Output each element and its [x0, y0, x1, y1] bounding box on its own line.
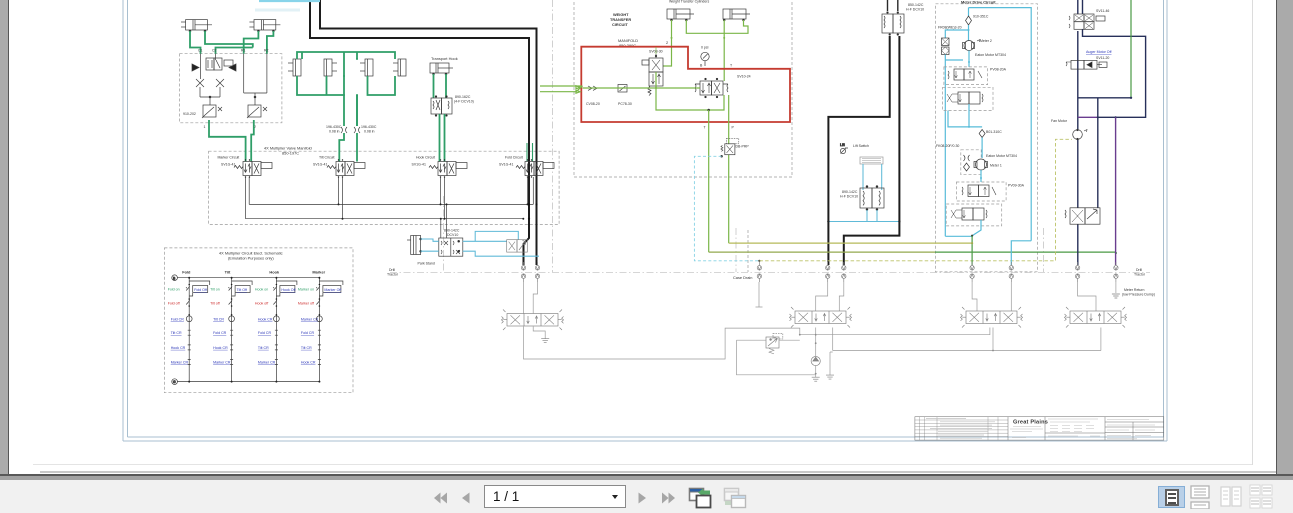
svg-text:Fold CR: Fold CR	[301, 331, 315, 335]
DCV 890-142C H-F	[860, 186, 884, 211]
svg-text:Drill: Drill	[1136, 268, 1142, 272]
svg-text:Fold Off: Fold Off	[194, 288, 207, 292]
address scribbles	[1010, 419, 1155, 439]
svg-text:890-162C: 890-162C	[455, 95, 471, 99]
svg-text:PV09-30A: PV09-30A	[1008, 184, 1025, 188]
svg-text:Park Stand: Park Stand	[418, 262, 435, 266]
bus1 to SCV3	[816, 328, 990, 335]
green wires hook DCV to hook valve	[440, 114, 445, 162]
svg-text:T: T	[704, 126, 707, 130]
tank below pump	[815, 374, 817, 378]
ground node bottom	[172, 379, 178, 385]
cyan right loop to coupler	[1011, 241, 1031, 265]
green tilt drops to restrictors	[336, 76, 357, 126]
green wires WT cylinders	[663, 20, 748, 81]
4X multiplier valve manifold dashed box	[209, 151, 559, 224]
svg-text:910-351C: 910-351C	[973, 15, 989, 19]
svg-text:R2: R2	[264, 49, 269, 53]
svg-text:SV11-20: SV11-20	[1096, 56, 1109, 60]
revision table left	[915, 417, 1008, 440]
green P-line below red box	[728, 95, 730, 243]
svg-text:Fold CR: Fold CR	[213, 331, 227, 335]
svg-text:Marker off: Marker off	[298, 302, 314, 306]
svg-text:Weight Transfer Cylinders: Weight Transfer Cylinders	[669, 0, 709, 4]
svg-text:Transport Hook: Transport Hook	[431, 56, 458, 61]
quick coupler meter return	[1114, 262, 1118, 282]
wire black inner	[320, 0, 537, 265]
restrictor 196-430C left	[341, 127, 347, 133]
svg-text:Lift Switch: Lift Switch	[853, 144, 869, 148]
svg-text:(Emulation Purposes only): (Emulation Purposes only)	[228, 256, 274, 261]
svg-text:PV08-20A: PV08-20A	[990, 68, 1007, 72]
svg-text:Marker CR: Marker CR	[213, 361, 231, 365]
svg-text:Hook CR: Hook CR	[213, 346, 228, 350]
transport hook cylinder	[430, 63, 453, 75]
quick coupler case drain	[757, 262, 761, 282]
svg-text:Tractor: Tractor	[1134, 273, 1146, 277]
zone dash-dot line vertical left	[552, 0, 554, 272]
svg-text:Tilt CR: Tilt CR	[258, 346, 269, 350]
svg-text:0.08 in: 0.08 in	[364, 130, 375, 134]
svg-text:Hook Circuit: Hook Circuit	[416, 156, 435, 160]
pump feed line	[815, 328, 817, 374]
cyan motor to valve block	[968, 51, 970, 67]
910-202 internals: check valve right	[229, 54, 267, 88]
svg-text:Meter 2: Meter 2	[980, 39, 992, 43]
quick coupler fan A	[1075, 262, 1079, 282]
SCV4 tractor valve	[1065, 307, 1127, 328]
tilt cylinder 1	[288, 59, 301, 76]
fold cylinder 1	[181, 20, 212, 32]
PV09 second block	[946, 204, 1002, 226]
check diamond 910-351C	[966, 16, 972, 25]
svg-text:Marker Off: Marker Off	[324, 288, 341, 292]
svg-text:196-430C: 196-430C	[361, 125, 377, 129]
cyan wires lift switch to DCV	[863, 164, 882, 190]
svg-text:C1: C1	[198, 49, 203, 53]
svg-text:(4-F DCV10): (4-F DCV10)	[454, 100, 474, 104]
wire: valve right port down, west, down to coupler	[844, 36, 900, 265]
cyan dashed from DB-PRP	[694, 156, 759, 260]
svg-text:P: P	[732, 126, 735, 130]
cyan down from block2	[948, 104, 982, 127]
svg-text:Fold CR: Fold CR	[258, 331, 272, 335]
bus2 to SCV3/SCV4	[833, 328, 1101, 351]
910-202 internals: check valve left	[192, 54, 216, 75]
red manifold outline	[581, 47, 790, 122]
quick coupler fold A	[521, 262, 525, 282]
PV08-20A valve block	[944, 67, 988, 85]
svg-text:Tilt CR: Tilt CR	[301, 346, 312, 350]
svg-text:C2: C2	[212, 49, 217, 53]
CV08-20 symbol	[588, 86, 597, 90]
svg-text:Hook CR: Hook CR	[171, 346, 186, 350]
wire black right pair from DCV 850-142C	[887, 0, 889, 11]
SCV3 tractor valve	[961, 307, 1023, 328]
title block outer rect	[915, 417, 1164, 440]
tilt cylinder 2	[324, 59, 337, 76]
bottom bus	[177, 381, 319, 383]
green drop to coupler	[971, 236, 973, 265]
SCV1 tractor valve	[502, 310, 564, 331]
navy wire from top to SV11-46	[1082, 0, 1084, 14]
quick coupler fold B	[535, 262, 539, 282]
cyan through orifice to motor1	[981, 138, 983, 159]
svg-text:Eaton Motor MT304: Eaton Motor MT304	[975, 53, 1006, 57]
svg-text:G: G	[173, 380, 176, 384]
quick coupler lift A	[826, 262, 830, 282]
park stand cylinder	[407, 236, 422, 255]
svg-text:Tilt Off: Tilt Off	[237, 288, 247, 292]
second valve block	[943, 87, 993, 110]
cyan wires DCV to black lines	[828, 210, 899, 222]
svg-text:H-F DCV10: H-F DCV10	[840, 195, 858, 199]
green wires hook cylinder to DCV	[434, 74, 447, 98]
single page mode (active)	[1158, 486, 1185, 508]
valve 850-142C H-F DCV10 top right	[882, 12, 904, 36]
case drain stub	[756, 282, 763, 307]
prev page btn	[461, 492, 471, 504]
first page btn	[433, 492, 448, 504]
top bus	[177, 277, 319, 279]
power node top	[172, 275, 178, 281]
svg-text:B: B	[700, 64, 703, 68]
cyan stub top edge	[259, 0, 320, 2]
navy drop to lower valve	[1097, 98, 1099, 208]
910-202 manifold dashed box	[180, 54, 282, 123]
meter drive dashed box	[936, 4, 1038, 272]
motor Meter 2	[963, 40, 981, 51]
svg-text:SV1G-41: SV1G-41	[313, 163, 327, 167]
svg-text:Marker on: Marker on	[298, 288, 314, 292]
svg-text:850-142C: 850-142C	[908, 3, 924, 7]
svg-text:Marker CR: Marker CR	[301, 317, 319, 321]
svg-text:Hook off: Hook off	[255, 302, 268, 306]
WT cylinder 1	[667, 9, 694, 21]
svg-text:B01-310C: B01-310C	[986, 130, 1002, 134]
fan motor circle	[1073, 129, 1087, 140]
page edges	[33, 464, 1252, 465]
transport hook DCV 890-162C	[431, 96, 452, 117]
relief loop lines	[737, 340, 816, 375]
weight transfer dashed box	[574, 0, 792, 177]
quick coupler meter B	[1009, 262, 1013, 282]
cyan motor1 down	[980, 170, 982, 182]
svg-text:Tractor: Tractor	[387, 273, 399, 277]
svg-text:Hook Off: Hook Off	[281, 288, 295, 292]
cyan to filters	[945, 25, 968, 41]
long olive dashed case-drain line	[759, 139, 1072, 260]
svg-text:0 psi: 0 psi	[701, 46, 709, 50]
marker circuit valve SV1G-41	[234, 159, 272, 177]
svg-text:DCV10: DCV10	[447, 233, 458, 237]
quick coupler lift B	[842, 262, 846, 282]
green tilt bus bottom	[297, 76, 395, 126]
svg-text:Tilt: Tilt	[225, 270, 231, 275]
lift switch symbol	[840, 143, 848, 154]
svg-text:Eaton Motor MT304: Eaton Motor MT304	[986, 154, 1017, 158]
next view icon (disabled)	[723, 487, 749, 510]
svg-text:Tilt CR: Tilt CR	[213, 317, 224, 321]
long green line T to purple	[709, 251, 935, 253]
valve SV10-24	[695, 78, 728, 98]
Drill/Tractor boundary dash-dot line	[390, 272, 1150, 274]
long olive line P to meter coupler	[729, 242, 972, 244]
green vertical to node	[1130, 0, 1132, 98]
svg-text:(low Pressure Dump): (low Pressure Dump)	[1122, 292, 1155, 296]
svg-text:Great Plains: Great Plains	[1013, 420, 1048, 426]
svg-text:Meter Drive Circuit: Meter Drive Circuit	[961, 0, 996, 5]
purple main vertical	[1115, 117, 1117, 265]
cyan wires park stand	[421, 239, 439, 251]
svg-text:T: T	[730, 64, 733, 68]
navy mid horizontal with purple tint	[1078, 116, 1098, 118]
DB-PRP valve	[721, 138, 739, 157]
PV09-30A valve block	[956, 182, 1006, 201]
svg-text:Hook CR: Hook CR	[301, 361, 316, 365]
filter symbols	[942, 38, 950, 55]
cyan bottom node	[945, 220, 981, 236]
navy node line	[1078, 97, 1131, 99]
green lines inside red box	[583, 72, 701, 88]
svg-text:B: B	[173, 276, 176, 280]
pump circle	[811, 356, 820, 365]
svg-text:Tilt off: Tilt off	[210, 302, 220, 306]
svg-text:Lift: Lift	[840, 143, 845, 147]
page number box	[484, 485, 626, 508]
svg-text:Meter 1: Meter 1	[990, 164, 1002, 168]
svg-text:1: 1	[204, 125, 206, 129]
PC78-30 symbol	[618, 85, 627, 93]
olive end drop	[971, 242, 973, 244]
electrical schematic dashed box	[164, 248, 353, 393]
svg-text:Fold off: Fold off	[168, 302, 180, 306]
910-202 internals: needle valve 1	[202, 105, 222, 118]
tilt circuit valve SV1G-41	[327, 159, 365, 177]
svg-text:Fold on: Fold on	[168, 288, 180, 292]
zone dash-dot line left short	[443, 196, 445, 272]
gauge 0 psi	[701, 52, 709, 66]
meter return tank	[1112, 294, 1120, 298]
svg-text:Tilt CR: Tilt CR	[171, 331, 182, 335]
second tank	[830, 352, 833, 375]
two page continuous mode	[1249, 484, 1273, 510]
svg-text:2: 2	[666, 40, 668, 45]
motor Meter 1	[974, 159, 988, 170]
svg-text:Tilt Circuit: Tilt Circuit	[319, 156, 334, 160]
green T-line below red box	[708, 110, 710, 252]
lower right valve	[1065, 208, 1100, 224]
gray lines couplers to SCV3	[972, 282, 1011, 311]
valve SV08-30	[642, 47, 663, 96]
SCV1 drain line to pump loop	[524, 327, 816, 360]
svg-text:910-202: 910-202	[183, 112, 196, 116]
svg-text:FK08-20F/0.30: FK08-20F/0.30	[936, 144, 959, 148]
revision text scribbles	[926, 419, 995, 439]
svg-text:R1: R1	[241, 49, 246, 53]
svg-text:SV10-24: SV10-24	[737, 75, 751, 79]
svg-text:PC78-30: PC78-30	[618, 102, 632, 106]
svg-text:Hook on: Hook on	[255, 288, 268, 292]
previous view icon	[688, 487, 714, 510]
next page btn	[637, 492, 647, 504]
svg-text:Case Drain: Case Drain	[733, 275, 752, 280]
green wires 910-202 ports down to marker valve	[209, 120, 246, 162]
svg-text:890-142C: 890-142C	[842, 190, 858, 194]
tilt cylinder 3	[360, 59, 373, 76]
svg-text:SV1G-41: SV1G-41	[412, 163, 426, 167]
WT cylinder 2	[723, 9, 750, 21]
two page mode	[1220, 485, 1242, 509]
meter drive cyan main loop	[969, 8, 1032, 241]
orifice dashed box	[961, 150, 981, 175]
svg-text:Fold CR: Fold CR	[171, 317, 185, 321]
relief valve	[766, 333, 783, 353]
last page btn	[661, 492, 676, 504]
zone dash line vertical center2	[747, 230, 749, 272]
thick black wire pair top-left going to fold circuit	[310, 0, 529, 265]
svg-text:850-197C: 850-197C	[282, 151, 299, 156]
black main vertical right	[1077, 0, 1079, 265]
wire: valve left port down, west, down to coupler	[828, 36, 889, 265]
svg-text:H-F DCV10: H-F DCV10	[906, 8, 924, 12]
svg-text:Fan Motor: Fan Motor	[1051, 119, 1068, 123]
green feed line into red box	[540, 86, 583, 92]
svg-text:0.08 in: 0.08 in	[329, 130, 340, 134]
svg-text:Fold: Fold	[182, 270, 191, 275]
svg-text:196-430C: 196-430C	[326, 125, 342, 129]
svg-text:Marker Circuit: Marker Circuit	[218, 156, 240, 160]
drawing frame (blue double border)	[123, 0, 1167, 441]
svg-text:SV1G-41: SV1G-41	[499, 163, 513, 167]
park 2-position valve	[507, 240, 528, 252]
tank below SCV1	[533, 327, 545, 339]
svg-text:Meter Return: Meter Return	[1124, 288, 1144, 292]
hook circuit valve SV1G-41	[429, 159, 467, 177]
green wires fold cylinders to 910-202 ports	[190, 31, 201, 54]
lift switch block	[860, 157, 883, 164]
manifold internal bus lines	[249, 177, 533, 204]
svg-text:CV08-20: CV08-20	[586, 102, 600, 106]
910-202 internals: pilot valve center	[206, 58, 233, 70]
svg-text:SV11-46: SV11-46	[1096, 9, 1109, 13]
check diamond B01-310C	[979, 130, 985, 138]
svg-text:DB-PRP: DB-PRP	[736, 145, 750, 149]
valve SV11-46	[1069, 14, 1105, 29]
wires manifold bus to park DCV	[441, 204, 447, 238]
svg-text:CIRCUIT: CIRCUIT	[612, 22, 628, 27]
green tilt bus top	[297, 52, 395, 76]
gray lines couplers to SCV1	[524, 282, 538, 314]
fold cylinder 2	[249, 20, 280, 32]
continuous mode	[1189, 485, 1211, 509]
valve SV11-20	[1066, 60, 1107, 69]
910-202 internals: orifice X pair	[196, 75, 267, 105]
svg-text:FR08(WE)3-20: FR08(WE)3-20	[938, 26, 962, 30]
svg-text:Hook CR: Hook CR	[258, 317, 273, 321]
svg-text:Marker: Marker	[312, 270, 325, 275]
green wires restrictors to tilt valve	[339, 133, 344, 162]
zone dash-dot line vertical right	[1043, 228, 1045, 272]
svg-text:Fold Circuit: Fold Circuit	[505, 156, 523, 160]
fold circuit valve SV1G-41	[516, 159, 554, 177]
quick coupler meter A	[970, 262, 974, 282]
svg-text:Hook: Hook	[269, 270, 280, 275]
zone dash-dot line vertical center	[735, 228, 737, 272]
svg-text:Auger Motor Off: Auger Motor Off	[1086, 50, 1112, 54]
gray lines couplers to SCV4	[1078, 282, 1116, 311]
SCV2 tractor valve	[790, 307, 852, 328]
svg-text:Tilt on: Tilt on	[210, 288, 220, 292]
tilt cylinder 4	[393, 59, 406, 76]
910-202 internals: needle valve 2	[247, 105, 267, 118]
park stand DCV	[439, 238, 463, 256]
gray lines couplers to SCV2	[816, 282, 844, 311]
svg-text:Marker CR: Marker CR	[171, 361, 189, 365]
svg-text:SV1G-41: SV1G-41	[221, 163, 235, 167]
navy loop right	[1083, 29, 1146, 117]
svg-text:Drill: Drill	[389, 268, 395, 272]
restrictor 196-430C right	[354, 127, 360, 133]
green wires fold circuit feed	[527, 143, 533, 162]
svg-text:Marker CR: Marker CR	[258, 361, 276, 365]
